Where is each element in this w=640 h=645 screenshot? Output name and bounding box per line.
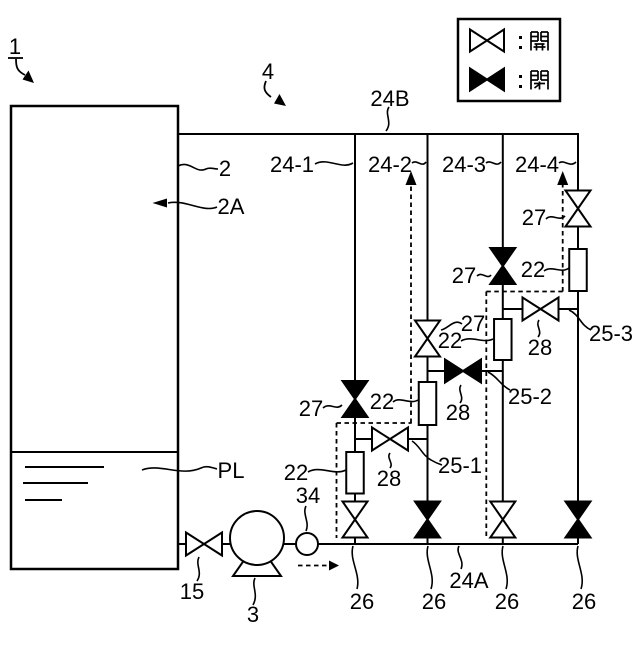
- liquid level PL: [11, 451, 178, 453]
- label 24-2 with leader: [368, 152, 426, 177]
- label 25-1 with leader: [412, 441, 482, 478]
- valve 28 on branch 25-3 (open): [523, 298, 559, 321]
- dashed flow path right horizontal: [486, 291, 562, 293]
- svg-text:24-3: 24-3: [442, 152, 486, 177]
- liquid hatch lines: [23, 467, 104, 500]
- pipe 24-3: [502, 134, 504, 544]
- label 22 pipe2 with leader: [370, 389, 418, 414]
- valve 28 on branch 25-1 (open): [372, 428, 408, 451]
- label 27 pipe2 with leader: [441, 311, 485, 336]
- svg-text:PL: PL: [218, 458, 245, 483]
- label 26 pipe1 with leader: [350, 546, 374, 614]
- svg-text:22: 22: [370, 389, 394, 414]
- svg-text:26: 26: [422, 589, 446, 614]
- valve 28 on branch 25-2 (closed): [445, 360, 481, 383]
- svg-text:26: 26: [350, 589, 374, 614]
- label 22 pipe4 with leader: [521, 257, 569, 282]
- pump 3: [230, 511, 284, 576]
- label 24A with leader: [449, 546, 488, 593]
- svg-text:26: 26: [495, 589, 519, 614]
- branch pipe 25-3: [503, 308, 578, 310]
- label 28 branch3 with leader: [528, 320, 552, 360]
- svg-text:25-3: 25-3: [589, 321, 633, 346]
- valve 27 on pipe 24-4 (open): [566, 191, 591, 227]
- label 27 pipe4 with leader: [522, 205, 565, 230]
- label 1 with underline and arrow: [8, 34, 34, 83]
- header pipe 24B: [178, 133, 579, 135]
- label 24B with leader: [370, 86, 409, 131]
- svg-text:25-2: 25-2: [508, 384, 552, 409]
- label 4 with arrow: [262, 59, 286, 106]
- legend box: [458, 19, 560, 101]
- label 34 with leader: [296, 483, 320, 531]
- label 2A with arrow leader: [153, 194, 245, 219]
- svg-text:22: 22: [521, 257, 545, 282]
- legend open valve symbol: [470, 30, 504, 52]
- svg-text:2A: 2A: [218, 194, 245, 219]
- svg-text:26: 26: [572, 589, 596, 614]
- orifice 22 on pipe 24-3: [494, 319, 512, 360]
- svg-text:27: 27: [452, 263, 476, 288]
- svg-text:22: 22: [438, 328, 462, 353]
- svg-text:22: 22: [284, 460, 308, 485]
- valve 27 on pipe 24-3 (closed): [490, 248, 515, 284]
- orifice 22 on pipe 24-1: [346, 452, 364, 494]
- label 26 pipe3 with leader: [495, 546, 519, 614]
- svg-text:24B: 24B: [370, 86, 409, 111]
- label 27 pipe3 with leader: [452, 263, 491, 288]
- label 28 branch1 with leader: [377, 453, 401, 491]
- legend kanji open (kai): [531, 32, 548, 51]
- dashed pump flow arrow: [298, 561, 339, 571]
- svg-text:1: 1: [9, 34, 21, 59]
- label PL with leader: [142, 458, 244, 483]
- pipe 24-1: [354, 134, 356, 544]
- svg-text:27: 27: [522, 205, 546, 230]
- legend kanji closed (hei): [531, 71, 548, 90]
- label 3 with leader: [247, 578, 259, 627]
- valve 26 on pipe 24-3 (open): [490, 502, 515, 538]
- dashed flow path right riser with arrow: [557, 171, 568, 292]
- label 22 pipe1 with leader: [284, 460, 346, 485]
- legend closed valve symbol: [470, 69, 504, 91]
- svg-text:15: 15: [180, 579, 204, 604]
- pipe 24-2: [427, 134, 429, 544]
- orifice 22 on pipe 24-4: [569, 249, 587, 291]
- valve 27 on pipe 24-2 (open): [415, 321, 440, 357]
- pipe 24-4: [577, 134, 579, 544]
- label 27 pipe1 with leader: [299, 396, 342, 421]
- label 26 pipe4 with leader: [572, 546, 596, 614]
- svg-text:27: 27: [461, 311, 485, 336]
- svg-text:4: 4: [262, 59, 274, 84]
- svg-text:34: 34: [296, 483, 320, 508]
- label 26 pipe2 with leader: [422, 546, 446, 614]
- svg-text:28: 28: [377, 466, 401, 491]
- svg-text:2: 2: [219, 156, 231, 181]
- pulsation damper 34: [296, 533, 318, 555]
- valve 27 on pipe 24-1 (closed): [343, 381, 368, 417]
- svg-text:25-1: 25-1: [438, 453, 482, 478]
- svg-text:24-1: 24-1: [270, 152, 314, 177]
- dashed flow path left horizontal: [337, 422, 412, 424]
- dashed flow path right vertical: [485, 292, 487, 538]
- dashed flow path left riser with arrow: [406, 171, 417, 423]
- legend colon marks: [519, 36, 522, 88]
- dashed flow path left vertical: [336, 423, 338, 538]
- valve 26 on pipe 24-1 (open): [343, 502, 368, 538]
- branch pipe 25-2: [428, 370, 503, 372]
- svg-text:24-2: 24-2: [368, 152, 412, 177]
- bottom header pipe 24A: [178, 543, 578, 545]
- label 24-4 with leader: [515, 152, 576, 177]
- svg-text:28: 28: [446, 400, 470, 425]
- svg-text:3: 3: [247, 602, 259, 627]
- svg-text:27: 27: [299, 396, 323, 421]
- valve 26 on pipe 24-4 (closed): [566, 502, 591, 538]
- svg-text:24-4: 24-4: [515, 152, 559, 177]
- valve 26 on pipe 24-2 (closed): [415, 502, 440, 538]
- label 2 with leader: [178, 156, 231, 181]
- valve 15: [186, 533, 222, 556]
- branch pipe 25-1: [355, 438, 428, 440]
- label 24-3 with leader: [442, 152, 501, 177]
- label 25-2 with leader: [488, 372, 552, 409]
- label 25-3 with leader: [569, 310, 633, 346]
- orifice 22 on pipe 24-2: [419, 382, 437, 425]
- svg-text:28: 28: [528, 335, 552, 360]
- label 24-1 with leader: [270, 152, 353, 177]
- label 22 pipe3 with leader: [438, 328, 493, 353]
- label 28 branch2 with leader: [446, 385, 470, 425]
- label 15 with leader: [180, 557, 204, 604]
- tank 2: [11, 106, 178, 569]
- svg-text:24A: 24A: [449, 568, 488, 593]
